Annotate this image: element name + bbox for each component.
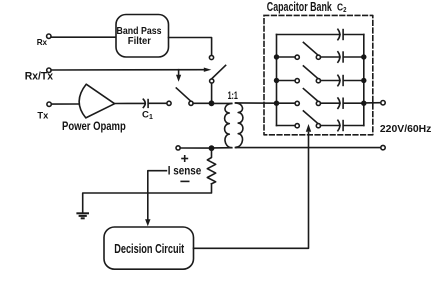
node A junction	[209, 100, 215, 106]
wire C1 to switch S2	[149, 102, 167, 104]
capacitor C2b	[338, 52, 343, 62]
branch 1 wire	[277, 34, 341, 36]
svg-text:Rx/Tx: Rx/Tx	[25, 71, 53, 83]
wire I sense terminal to node B	[180, 147, 209, 149]
output terminal top	[381, 101, 385, 105]
switch S6	[295, 111, 320, 128]
transformer T1 secondary winding	[236, 103, 243, 148]
svg-text:Tx: Tx	[37, 110, 49, 121]
control branch arrow to switch S2	[176, 70, 181, 82]
capacitor C2d	[338, 98, 343, 108]
svg-text:Filter: Filter	[128, 35, 151, 47]
capacitor C2a	[338, 29, 343, 39]
wire right bus to output terminal top	[364, 102, 381, 104]
branch 4 wire	[277, 102, 295, 104]
svg-text:Rx: Rx	[37, 37, 48, 47]
branch 2 node right	[361, 54, 366, 59]
control line Rx/Tx with right arrow	[51, 68, 211, 72]
branch 2 wire	[277, 56, 295, 58]
capacitor bank left bus	[276, 35, 278, 126]
branch 2 wire to capacitor	[321, 56, 341, 58]
svg-text:220V/60Hz: 220V/60Hz	[380, 124, 432, 135]
terminal I sense	[168, 146, 202, 182]
branch 5 wire to capacitor	[321, 125, 341, 127]
svg-text:Capacitor Bank: Capacitor Bank	[267, 0, 332, 14]
wire secondary bottom to output terminal	[235, 147, 381, 149]
wire resistor bottom to ground	[83, 184, 212, 213]
branch 2 node left	[274, 54, 279, 59]
terminal Tx	[37, 102, 51, 121]
branch 1 wire to right bus	[344, 34, 364, 36]
branch 4 wire to right bus	[344, 102, 364, 104]
terminal Rx	[37, 34, 51, 47]
wire decision circuit to capacitor bank control arrow	[194, 124, 312, 248]
capacitor C2e	[338, 120, 343, 130]
wire Tx to power opamp	[51, 103, 79, 105]
branch 4 node left	[274, 101, 279, 106]
branch 3 wire to capacitor	[321, 80, 341, 82]
wire secondary top to capacitor bank left bus	[235, 102, 276, 104]
capacitor bank right bus	[363, 35, 365, 126]
switch S5	[295, 89, 320, 106]
decision circuit	[104, 227, 194, 269]
capacitor bank enclosure (dashed)	[264, 0, 373, 135]
sense lead to decision circuit	[145, 171, 166, 227]
wire switch S2 to node A	[193, 102, 209, 104]
svg-text:I sense: I sense	[168, 166, 202, 178]
branch 4 wire to capacitor	[321, 102, 341, 104]
wire opamp to capacitor C1	[115, 102, 146, 104]
power opamp	[62, 84, 126, 133]
switch S1 (Rx select)	[209, 55, 225, 83]
node B junction	[209, 145, 215, 151]
capacitor C2c	[338, 75, 343, 85]
branch 3 node left	[274, 78, 279, 83]
wire switch S1 to node A	[211, 83, 213, 103]
band pass filter	[116, 15, 169, 58]
switch S4	[295, 66, 320, 83]
terminal Rx/Tx	[25, 68, 53, 83]
branch 3 wire	[277, 80, 295, 82]
transformer T1 primary winding	[213, 103, 232, 147]
svg-text:1:1: 1:1	[228, 90, 238, 102]
branch 3 node right	[361, 78, 366, 83]
svg-text:Decision Circuit: Decision Circuit	[114, 242, 185, 256]
branch 2 wire to right bus	[344, 56, 364, 58]
branch 4 node right	[361, 101, 366, 106]
resistor R1 current sense	[207, 150, 215, 184]
ground	[77, 213, 88, 218]
branch 5 wire to right bus	[344, 125, 364, 127]
switch S3	[295, 42, 320, 59]
switch S2 (Tx path)	[167, 88, 193, 105]
branch 5 wire	[277, 125, 295, 127]
wire Rx to band pass filter	[51, 36, 115, 38]
output terminal bottom	[381, 145, 385, 149]
svg-text:Power Opamp: Power Opamp	[62, 120, 126, 133]
capacitor C1	[142, 99, 153, 121]
branch 3 wire to right bus	[344, 80, 364, 82]
wire band pass filter to switch S1	[169, 38, 212, 56]
